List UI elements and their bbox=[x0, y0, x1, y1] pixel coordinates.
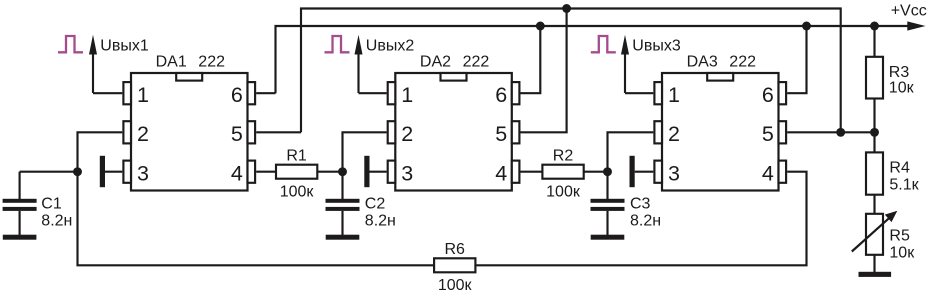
resistor R1 100к bbox=[276, 165, 317, 179]
pin 3 stub of DA3 bbox=[654, 161, 662, 183]
svg-text:R5: R5 bbox=[889, 228, 910, 245]
svg-text:6: 6 bbox=[762, 83, 774, 107]
wire DA1 pin5 to bus bbox=[256, 131, 301, 133]
wire +Vcc bus through R3 R4 R5 to ground bbox=[873, 26, 875, 272]
svg-text:4: 4 bbox=[495, 161, 507, 185]
pin 3 stub of DA1 bbox=[123, 161, 131, 183]
ground bar under C1 bbox=[3, 235, 37, 240]
chassis bar at pin 3 of DA2 bbox=[364, 156, 369, 187]
resistor R3 10к bbox=[866, 57, 883, 99]
IC DA1 body bbox=[131, 73, 248, 191]
pin 1 stub of DA1 bbox=[123, 82, 131, 104]
node dot R3 top / +Vcc bus bbox=[870, 22, 879, 31]
svg-text:R4: R4 bbox=[889, 159, 910, 176]
wire DA2 pin3 to chassis bar bbox=[370, 171, 387, 173]
wire DA3 pin5 to divider R3/R4 junction bbox=[787, 131, 874, 133]
svg-text:C3: C3 bbox=[630, 196, 651, 213]
svg-text:4: 4 bbox=[231, 161, 243, 185]
power +Vcc arrowhead bbox=[907, 21, 925, 30]
wire DA2 pin4 through R2 to DA3 junction bbox=[521, 171, 608, 173]
pin 3 stub of DA2 bbox=[388, 161, 396, 183]
wire DA2 pin1 to output arrow bbox=[359, 92, 387, 94]
IC DA2 top notch bbox=[441, 73, 467, 81]
svg-text:8.2н: 8.2н bbox=[41, 213, 72, 230]
wire DA1 pin2 feedback down to R6 and on to DA3 pin4 bbox=[78, 132, 807, 265]
pin 5 stub of DA3 bbox=[779, 121, 787, 143]
pin 2 stub of DA2 bbox=[388, 121, 396, 143]
trimmer arrow of R5 bbox=[852, 216, 891, 251]
wire DA3 pin6 riser to +Vcc bus bbox=[787, 26, 806, 93]
capacitor C2 8.2н bbox=[341, 172, 343, 199]
svg-text:1: 1 bbox=[137, 83, 149, 107]
pin 4 stub of DA2 bbox=[512, 161, 520, 183]
svg-text:R2: R2 bbox=[553, 148, 574, 165]
node dot pin5 bus drop / DA3 pin5 wire bbox=[836, 128, 845, 137]
wire DA2 pin5 riser to pin5 bus bbox=[521, 9, 567, 133]
resistor R6 100к bbox=[434, 258, 475, 272]
pin 1 stub of DA3 bbox=[654, 82, 662, 104]
svg-text:Uвых1: Uвых1 bbox=[100, 38, 149, 55]
pin 5 stub of DA2 bbox=[512, 121, 520, 143]
IC DA1 top notch bbox=[176, 73, 202, 81]
svg-text:R6: R6 bbox=[444, 241, 465, 258]
pin 1 stub of DA2 bbox=[388, 82, 396, 104]
svg-text:5.1к: 5.1к bbox=[889, 177, 919, 194]
svg-text:Uвых2: Uвых2 bbox=[366, 38, 415, 55]
svg-text:R3: R3 bbox=[889, 64, 910, 81]
wire bus of pin-5 outputs (top line) bbox=[301, 9, 841, 133]
node dot DA3 pin6 / +Vcc bus bbox=[802, 22, 811, 31]
ground bar under C2 bbox=[326, 235, 360, 240]
svg-text:222: 222 bbox=[198, 54, 225, 71]
svg-text:6: 6 bbox=[231, 83, 243, 107]
svg-text:2: 2 bbox=[668, 122, 680, 146]
output arrow Uвых2 bbox=[357, 48, 359, 93]
svg-text:5: 5 bbox=[762, 122, 774, 146]
svg-text:3: 3 bbox=[401, 161, 413, 185]
svg-text:100к: 100к bbox=[546, 183, 581, 200]
svg-text:4: 4 bbox=[762, 161, 774, 185]
wire DA1 pin6 to +Vcc bus bbox=[256, 92, 275, 94]
pin 2 stub of DA3 bbox=[654, 121, 662, 143]
pin 2 stub of DA1 bbox=[123, 121, 131, 143]
svg-text:222: 222 bbox=[463, 54, 490, 71]
output arrow Uвых3 bbox=[624, 48, 626, 93]
svg-text:DA2: DA2 bbox=[420, 54, 451, 71]
svg-text:2: 2 bbox=[401, 122, 413, 146]
svg-text:8.2н: 8.2н bbox=[630, 213, 661, 230]
wire DA3 pin3 to chassis bar bbox=[635, 171, 654, 173]
pulse waveform symbol for Uвых3 bbox=[591, 36, 616, 52]
svg-text:10к: 10к bbox=[889, 80, 915, 97]
output arrow Uвых1 bbox=[92, 48, 94, 93]
wire C1 stub to junction bbox=[20, 171, 78, 173]
svg-text:3: 3 bbox=[137, 161, 149, 185]
svg-text:DA3: DA3 bbox=[687, 54, 718, 71]
wire DA1 pin1 to output arrow bbox=[93, 92, 122, 94]
svg-text:DA1: DA1 bbox=[156, 54, 187, 71]
pin 5 stub of DA1 bbox=[248, 121, 256, 143]
node dot divider tap bbox=[870, 128, 879, 137]
wire DA2 pin6 riser to +Vcc bus bbox=[521, 26, 541, 93]
wire DA3 pin1 to output arrow bbox=[625, 92, 653, 94]
pin 6 stub of DA3 bbox=[779, 82, 787, 104]
pin 6 stub of DA1 bbox=[248, 82, 256, 104]
svg-text:5: 5 bbox=[495, 122, 507, 146]
svg-text:Uвых3: Uвых3 bbox=[632, 38, 681, 55]
svg-text:2: 2 bbox=[137, 122, 149, 146]
svg-text:222: 222 bbox=[729, 54, 756, 71]
wire DA1 pin4 through R1 to DA2 junction bbox=[256, 171, 342, 173]
wire +Vcc bus (second top line) bbox=[276, 26, 912, 93]
pin 6 stub of DA2 bbox=[512, 82, 520, 104]
ground bar under C3 bbox=[591, 235, 625, 240]
wire DA1 pin3 to chassis bar bbox=[105, 171, 122, 173]
svg-text:R1: R1 bbox=[286, 148, 307, 165]
resistor R4 5.1к bbox=[866, 152, 883, 194]
chassis bar at pin 3 of DA1 bbox=[100, 156, 105, 187]
node dot R2 / C3 / DA3 pin2 junction bbox=[603, 167, 612, 176]
pulse waveform symbol for Uвых1 bbox=[58, 36, 83, 52]
svg-text:1: 1 bbox=[668, 83, 680, 107]
svg-text:100к: 100к bbox=[280, 183, 315, 200]
IC DA3 top notch bbox=[707, 73, 733, 81]
pulse waveform symbol for Uвых2 bbox=[325, 36, 350, 52]
svg-text:100к: 100к bbox=[438, 277, 473, 294]
IC DA3 body bbox=[662, 73, 779, 191]
trimmer resistor R5 10к bbox=[866, 214, 883, 255]
capacitor C1 8.2н bbox=[19, 172, 21, 199]
IC DA2 body bbox=[395, 73, 512, 191]
svg-text:1: 1 bbox=[401, 83, 413, 107]
svg-text:8.2н: 8.2н bbox=[365, 213, 396, 230]
node dot DA2 pin6 / +Vcc bus bbox=[536, 22, 545, 31]
node dot C1 / DA1 pin2 / R6 junction bbox=[73, 167, 82, 176]
capacitor C3 8.2н bbox=[606, 172, 608, 199]
svg-text:C1: C1 bbox=[41, 196, 62, 213]
svg-text:C2: C2 bbox=[365, 196, 386, 213]
node dot DA2 pin5 / pin5 bus bbox=[562, 4, 571, 13]
pin 4 stub of DA3 bbox=[779, 161, 787, 183]
chassis bar at pin 3 of DA3 bbox=[630, 156, 635, 187]
wire junction riser to DA2 pin2 bbox=[343, 132, 387, 171]
node dot R1 / C2 / DA2 pin2 junction bbox=[338, 167, 347, 176]
svg-text:6: 6 bbox=[495, 83, 507, 107]
wire junction riser to DA3 pin2 bbox=[608, 132, 654, 171]
ground bar under R5 bbox=[859, 272, 892, 277]
resistor R2 100к bbox=[542, 165, 583, 179]
pin 4 stub of DA1 bbox=[248, 161, 256, 183]
svg-text:+Vcc: +Vcc bbox=[891, 3, 927, 20]
svg-text:10к: 10к bbox=[889, 245, 915, 262]
svg-text:3: 3 bbox=[668, 161, 680, 185]
svg-text:5: 5 bbox=[231, 122, 243, 146]
